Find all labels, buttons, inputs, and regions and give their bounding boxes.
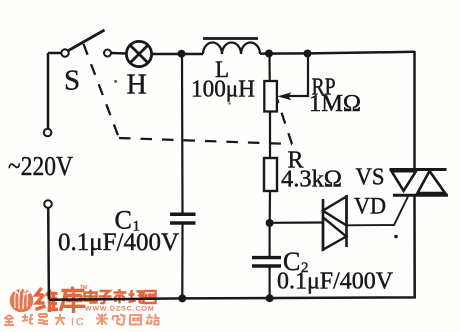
watermark bottom row — [4, 314, 65, 325]
svg-text:S: S — [64, 65, 80, 97]
stray dot — [394, 235, 398, 239]
watermark char CHANG — [129, 290, 143, 303]
wire node D to C2 — [269, 223, 271, 256]
stray speck — [114, 80, 117, 83]
terminal upper circle — [44, 129, 52, 137]
inductor L core bar — [203, 37, 258, 40]
diac VD upper triangle — [323, 197, 347, 226]
wire left rail upper — [47, 53, 50, 129]
wire lamp to node A — [152, 53, 203, 56]
watermark char ZI — [99, 291, 112, 303]
wire node A down to C1 — [181, 54, 184, 213]
node F junction — [266, 294, 274, 302]
svg-text:4.3kΩ: 4.3kΩ — [281, 167, 342, 193]
dashed link horizontal — [119, 138, 292, 144]
watermark char KU — [61, 287, 86, 314]
node A junction — [178, 50, 186, 58]
svg-text:100μH: 100μH — [191, 77, 255, 103]
triac VS left triangle — [392, 171, 417, 191]
node D junction — [266, 219, 274, 227]
watermark char DIAN — [85, 290, 98, 303]
wire top corner down to triac — [413, 51, 416, 170]
svg-text:H: H — [127, 70, 147, 101]
wire node B to RP — [268, 54, 270, 82]
svg-text:VD: VD — [354, 194, 386, 219]
wire C2 to bottom rail — [269, 268, 271, 299]
inductor L coil — [203, 43, 260, 54]
wire top rail left segment — [48, 52, 62, 55]
svg-text:1MΩ: 1MΩ — [309, 91, 361, 117]
wire RP to R — [269, 112, 271, 159]
svg-text:VS: VS — [356, 164, 385, 191]
wire node A to top-right corner — [260, 52, 415, 54]
svg-text:0.1μF/400V: 0.1μF/400V — [277, 269, 394, 295]
capacitor C2 top plate — [252, 256, 281, 259]
watermark char SHI — [114, 289, 127, 304]
wire left rail lower — [47, 208, 50, 300]
triac VS bottom bar — [393, 194, 448, 197]
watermark char WEI — [36, 288, 59, 312]
terminal lower circle — [44, 200, 52, 208]
potentiometer RP wiper arm — [284, 54, 308, 97]
wire switch to lamp — [111, 52, 126, 55]
svg-text:0.1μF/400V: 0.1μF/400V — [58, 227, 180, 256]
capacitor C1 top plate — [170, 213, 196, 217]
lamp H — [126, 41, 151, 66]
wire R to node D — [269, 191, 271, 223]
stray speck 2 — [228, 102, 230, 104]
potentiometer RP body — [264, 81, 277, 112]
triac VS right triangle — [418, 171, 446, 193]
potentiometer RP wiper arrowhead — [277, 92, 291, 100]
switch S — [61, 30, 111, 57]
dashed link to RP — [277, 99, 292, 144]
wire C1 to bottom rail — [181, 225, 183, 299]
capacitor C1 bottom plate — [170, 221, 196, 225]
triac VS top bar — [390, 168, 447, 171]
resistor R body — [264, 158, 277, 191]
svg-text:WWW.DZSC.COM: WWW.DZSC.COM — [85, 306, 155, 313]
diac VD lower triangle — [323, 217, 346, 249]
watermark bottom row right part — [96, 314, 160, 326]
dashed link from switch — [84, 44, 120, 138]
wire triac to bottom-right corner — [49, 195, 415, 299]
node C junction — [304, 50, 312, 58]
watermark char WANG — [144, 291, 156, 303]
watermark logo disc — [10, 288, 34, 312]
diac VD right bar — [345, 195, 348, 247]
wire node D to diac — [270, 221, 322, 224]
node B junction — [265, 50, 273, 58]
capacitor C2 bottom plate — [252, 264, 281, 267]
svg-text:IC: IC — [71, 316, 86, 328]
wire diac to triac gate — [347, 197, 409, 226]
node E junction — [178, 294, 186, 302]
diac VD left bar — [322, 199, 325, 251]
svg-text:~220V: ~220V — [8, 151, 73, 181]
svg-text:TM: TM — [80, 285, 87, 291]
